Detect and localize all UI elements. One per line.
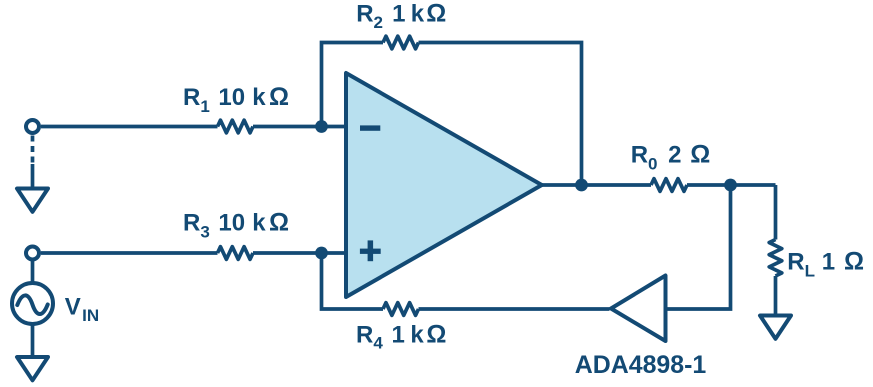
svg-text:VIN: VIN — [65, 293, 99, 325]
svg-text:R41kΩ: R41kΩ — [356, 320, 446, 352]
svg-text:R110kΩ: R110kΩ — [183, 83, 289, 116]
svg-text:R21kΩ: R21kΩ — [356, 0, 446, 32]
svg-text:RL1Ω: RL1Ω — [787, 247, 864, 280]
svg-text:ADA4898-1: ADA4898-1 — [575, 351, 707, 379]
svg-text:R310kΩ: R310kΩ — [183, 209, 289, 242]
svg-text:R02Ω: R02Ω — [631, 141, 711, 174]
